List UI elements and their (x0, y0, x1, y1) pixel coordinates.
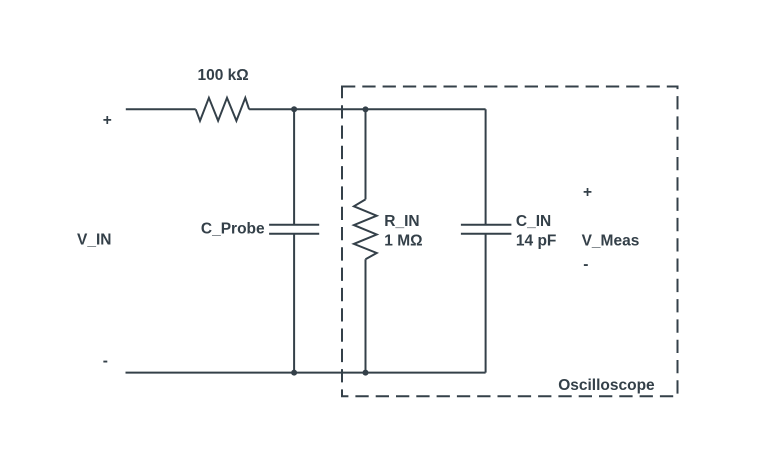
oscilloscope dashed boundary box (342, 87, 678, 397)
resistor R_IN 1 MOhm (354, 199, 377, 259)
node junction dot bottom-left (291, 370, 297, 376)
wire C_IN branch lower (485, 234, 487, 372)
wire R_IN branch lower (365, 259, 367, 372)
svg-text:C_Probe: C_Probe (201, 221, 265, 238)
node junction dot top-right (363, 106, 369, 112)
svg-text:C_IN: C_IN (516, 213, 551, 230)
node junction dot bottom-right (363, 370, 369, 376)
svg-text:-: - (103, 353, 108, 370)
svg-text:V_Meas: V_Meas (582, 232, 640, 249)
capacitor C_IN (461, 225, 512, 234)
wire top horizontal right of resistor (249, 108, 486, 110)
svg-text:V_IN: V_IN (77, 232, 111, 249)
svg-text:1 MΩ: 1 MΩ (384, 233, 422, 250)
svg-text:+: + (103, 112, 112, 129)
svg-text:-: - (583, 256, 588, 273)
resistor R 100 kOhm (196, 98, 249, 121)
wire C_Probe branch lower (293, 234, 295, 372)
wire R_IN branch upper (365, 109, 367, 199)
wire bottom horizontal (126, 372, 486, 374)
svg-text:14 pF: 14 pF (516, 232, 556, 249)
svg-text:Oscilloscope: Oscilloscope (558, 377, 655, 394)
wire top horizontal left lead (126, 108, 196, 110)
svg-text:R_IN: R_IN (384, 213, 419, 230)
wire C_Probe branch upper (293, 109, 295, 224)
wire C_IN branch upper (485, 109, 487, 224)
capacitor C_Probe (269, 225, 319, 234)
svg-text:+: + (583, 184, 592, 201)
svg-text:100 kΩ: 100 kΩ (198, 67, 249, 84)
node junction dot top-left (291, 106, 297, 112)
